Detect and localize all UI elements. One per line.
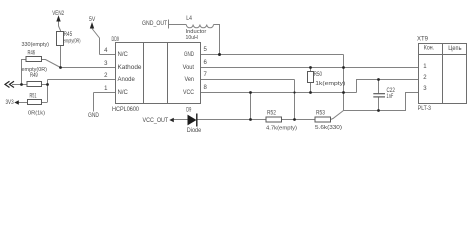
wire L4 right to drop bbox=[214, 25, 220, 55]
capacitor C22 plate bottom bbox=[373, 96, 385, 98]
wire rail to connector pin3 riser bbox=[344, 93, 419, 111]
capacitor C22 lead bottom bbox=[378, 97, 380, 110]
wire node B riser bbox=[47, 80, 49, 103]
svg-text:0R(1k): 0R(1k) bbox=[28, 111, 45, 117]
junction dot node C on VCC bbox=[342, 91, 345, 94]
junction dot R50 top bbox=[309, 66, 312, 69]
wire pin5 GND rail bbox=[201, 54, 344, 56]
svg-text:VCC_OUT: VCC_OUT bbox=[143, 118, 169, 124]
resistor R53 body bbox=[315, 117, 331, 122]
svg-text:5V: 5V bbox=[89, 17, 95, 23]
wire R51 left lead bbox=[19, 102, 28, 104]
svg-text:R52: R52 bbox=[267, 111, 277, 117]
wire R52 to R53 bbox=[282, 119, 316, 121]
junction dot chevron bbox=[20, 83, 23, 86]
svg-text:1k(empty): 1k(empty) bbox=[315, 81, 345, 87]
wire pin4 row left (5V to chip) bbox=[100, 54, 116, 56]
wire R53 right diagonal up bbox=[331, 111, 344, 120]
wire R49 right to node B bbox=[42, 84, 48, 86]
resistor R45 lead bottom bbox=[60, 46, 62, 68]
wire bottom rail VCC_OUT bbox=[174, 119, 188, 121]
wire R51 right lead bbox=[42, 102, 48, 104]
svg-text:GND: GND bbox=[88, 113, 100, 119]
svg-text:VCC: VCC bbox=[183, 90, 195, 96]
junction dot node C on Vout bbox=[342, 66, 345, 69]
resistor R46 lead left + riser bbox=[22, 60, 27, 85]
junction dot VCC drop bbox=[249, 91, 252, 94]
port VCC_OUT arrow bbox=[169, 118, 174, 122]
wire diode to R52 bbox=[197, 119, 266, 121]
svg-text:L4: L4 bbox=[186, 16, 192, 22]
svg-text:Vout: Vout bbox=[183, 65, 195, 71]
svg-text:R46: R46 bbox=[28, 50, 36, 56]
wire chevron row (port to R49) bbox=[12, 84, 27, 86]
svg-text:GND_OUT: GND_OUT bbox=[142, 21, 167, 27]
wire pin8 VCC rail bbox=[201, 92, 357, 94]
capacitor C22 lead top bbox=[378, 80, 380, 94]
wire Ven drop bbox=[294, 80, 296, 120]
junction dot bottom rail Ven drop bbox=[293, 118, 296, 121]
svg-text:N/C: N/C bbox=[118, 90, 129, 96]
svg-text:Ven: Ven bbox=[185, 77, 195, 83]
resistor R50 lead bottom bbox=[310, 83, 312, 93]
wire GND_OUT to L4 bbox=[169, 24, 187, 26]
port chevron double arrow bbox=[5, 81, 14, 87]
wire pin2 row left (node B to chip) bbox=[48, 79, 116, 81]
svg-text:Цепь: Цепь bbox=[448, 46, 461, 52]
svg-text:XT9: XT9 bbox=[417, 37, 429, 43]
svg-text:R50: R50 bbox=[314, 72, 323, 78]
resistor R45 lead top bbox=[59, 22, 61, 32]
diode D9 triangle bbox=[188, 115, 197, 126]
svg-text:DD9: DD9 bbox=[112, 37, 120, 43]
resistor R51 body bbox=[28, 100, 42, 105]
svg-text:VEN2: VEN2 bbox=[52, 11, 64, 17]
diode D9 cathode bar bbox=[196, 114, 198, 127]
capacitor C22 plate top bbox=[373, 93, 385, 95]
resistor R50 lead top bbox=[310, 68, 312, 72]
power 5V lead bbox=[92, 29, 100, 55]
power 5V arrow bbox=[90, 22, 94, 29]
junction dot C22 top bbox=[377, 78, 380, 81]
resistor R46 lead right diagonal bbox=[42, 60, 61, 68]
svg-text:10uH: 10uH bbox=[186, 35, 198, 41]
wire pin1 row left (GND) bbox=[94, 92, 116, 94]
resistor R52 body bbox=[266, 117, 282, 122]
svg-text:Kathode: Kathode bbox=[118, 65, 143, 71]
svg-text:R53: R53 bbox=[316, 111, 326, 117]
svg-text:R51: R51 bbox=[30, 94, 37, 100]
junction dot C22 bottom bbox=[377, 109, 380, 112]
junction dot R50 bottom bbox=[309, 91, 312, 94]
connector XT9 box bbox=[419, 44, 467, 104]
svg-text:C22: C22 bbox=[387, 88, 396, 94]
svg-text:4.7k(empty): 4.7k(empty) bbox=[266, 125, 297, 131]
resistor R45 body bbox=[57, 32, 64, 46]
wire pin3 row left (node K to chip) bbox=[61, 67, 116, 69]
wire pin6 Vout rail to connector pin1 bbox=[201, 67, 419, 69]
svg-text:330(empty): 330(empty) bbox=[22, 42, 50, 48]
wire pin7 Ven rail bbox=[201, 79, 295, 81]
junction dot bottom rail VCC drop bbox=[249, 118, 252, 121]
svg-text:GND: GND bbox=[184, 52, 194, 58]
junction dot Ven/VCC cross bbox=[293, 91, 295, 93]
wire GND rail drop at node C bbox=[343, 55, 345, 111]
port 3V3 arrow bbox=[14, 100, 18, 104]
svg-text:N/C: N/C bbox=[118, 52, 129, 58]
inductor L4 coil bbox=[186, 25, 213, 28]
svg-text:3V3: 3V3 bbox=[6, 100, 15, 106]
power VEN2 arrow bbox=[56, 15, 60, 21]
svg-text:R45: R45 bbox=[64, 32, 73, 38]
resistor R46 body bbox=[26, 57, 42, 62]
svg-text:1nF: 1nF bbox=[387, 94, 394, 100]
svg-text:Кон.: Кон. bbox=[424, 46, 434, 52]
resistor R49 body bbox=[27, 82, 42, 87]
svg-text:D9: D9 bbox=[186, 108, 191, 114]
op-coupler U DD9 box bbox=[116, 43, 201, 104]
node B junction dot bbox=[46, 83, 49, 86]
svg-text:empty(0R): empty(0R) bbox=[63, 39, 81, 45]
wire VCC drop to bottom rail bbox=[250, 93, 252, 120]
svg-text:PLT-3: PLT-3 bbox=[418, 106, 432, 112]
junction dot L4/pin5 bbox=[218, 53, 221, 56]
wire VCC step up to pin2 row bbox=[357, 80, 419, 93]
svg-text:Anode: Anode bbox=[118, 77, 136, 83]
svg-text:Diode: Diode bbox=[187, 128, 202, 134]
svg-text:HCPL0600: HCPL0600 bbox=[112, 107, 140, 113]
port GND_OUT bar bbox=[168, 20, 170, 29]
svg-text:R49: R49 bbox=[30, 73, 38, 79]
node K junction dot bbox=[59, 66, 62, 69]
resistor R50 body bbox=[308, 72, 314, 83]
svg-text:5.6k(330): 5.6k(330) bbox=[315, 125, 342, 131]
wire GND drop bbox=[93, 93, 95, 112]
